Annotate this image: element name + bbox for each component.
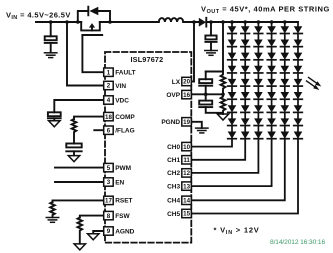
svg-text:1: 1	[107, 69, 111, 76]
svg-text:CH3: CH3	[167, 183, 180, 190]
inductor L1	[159, 18, 183, 22]
node string tap	[230, 20, 234, 24]
resistor RCOMP	[72, 119, 77, 144]
wire FET to inductor	[100, 21, 159, 23]
ground arrow AGND	[88, 234, 99, 240]
svg-text:13: 13	[183, 183, 190, 190]
LED string 1	[228, 22, 237, 139]
transistor Q1 pass FET	[81, 22, 102, 35]
wire string 2 to CH1	[191, 139, 245, 160]
svg-text:CH4: CH4	[167, 198, 180, 205]
wire string 4 to CH3	[191, 139, 271, 187]
pin 1 FAULT	[104, 68, 136, 77]
wire string 6 to CH5	[191, 139, 298, 214]
wire FSW pin 8	[80, 216, 104, 218]
svg-text:CH5: CH5	[167, 211, 180, 218]
svg-text:6: 6	[107, 127, 111, 134]
node string tap	[257, 20, 261, 24]
LED string 3	[254, 22, 263, 139]
wire EN input	[55, 181, 104, 183]
ground COUT	[205, 51, 217, 56]
node LX junction	[192, 20, 196, 24]
pin 5 PWM	[104, 163, 131, 172]
svg-text:10: 10	[183, 144, 190, 151]
wire /FLAG stub	[94, 129, 103, 131]
ground RSET	[46, 218, 58, 223]
IC box ISL97672 dashed outline	[105, 52, 191, 243]
pin 14 CH4	[167, 196, 191, 205]
LED string 4	[267, 22, 276, 139]
svg-text:3: 3	[107, 179, 111, 186]
node string tap	[243, 20, 247, 24]
LED string 2	[241, 22, 250, 139]
pin 12 CH2	[167, 169, 191, 178]
wire PGND pin 19	[191, 122, 202, 128]
node COUT tap	[209, 20, 213, 24]
ground arrow CCOMP	[68, 156, 79, 162]
svg-text:CH2: CH2	[167, 170, 180, 177]
ground CIN	[45, 53, 57, 58]
ground PGND	[196, 128, 208, 133]
svg-text:2: 2	[107, 83, 111, 90]
svg-text:FAULT: FAULT	[115, 70, 135, 77]
svg-text:15: 15	[183, 211, 190, 218]
svg-text:/FLAG: /FLAG	[115, 128, 135, 135]
pin 10 CH0	[167, 142, 191, 151]
resistor R1 OVP upper	[221, 72, 226, 95]
pin 18 COMP	[104, 112, 136, 121]
node OVP caps	[204, 93, 208, 97]
svg-text:VIN: VIN	[115, 83, 126, 90]
wire LX drop to pin 20	[191, 22, 194, 82]
svg-text:20: 20	[183, 79, 190, 86]
ground arrow RFSW	[74, 244, 85, 250]
node string tap	[270, 20, 274, 24]
pin 4 VDC	[104, 96, 130, 105]
wire VDC pin 4	[54, 100, 103, 112]
node OVP divider	[221, 93, 225, 97]
LED string 5	[281, 22, 290, 139]
pin 3 EN	[104, 178, 125, 187]
svg-text:OVP: OVP	[166, 92, 180, 99]
pin 8 FSW	[104, 211, 131, 220]
svg-text:RSET: RSET	[115, 198, 132, 205]
wire input rail	[36, 21, 81, 23]
svg-text:EN: EN	[115, 179, 124, 186]
wire VIN feed	[67, 22, 104, 86]
wire OVP pin 16	[191, 93, 223, 95]
ground arrow CVDC	[49, 121, 60, 127]
svg-text:CH1: CH1	[167, 157, 180, 164]
svg-text:14: 14	[183, 198, 190, 205]
wire PWM input	[55, 167, 104, 169]
pin 15 CH5	[167, 209, 191, 218]
svg-text:8: 8	[107, 213, 111, 220]
svg-text:19: 19	[183, 119, 190, 126]
svg-text:12: 12	[183, 170, 190, 177]
svg-text:PWM: PWM	[115, 165, 131, 172]
pin 9 AGND	[104, 227, 135, 236]
wire string 3 to CH2	[191, 139, 258, 173]
svg-text:11: 11	[183, 157, 190, 164]
wire OVP feed from VOUT	[206, 22, 223, 72]
pin 20 LX	[172, 77, 192, 86]
svg-text:FSW: FSW	[115, 213, 130, 220]
node VIN feed tap	[65, 20, 69, 24]
svg-text:AGND: AGND	[115, 228, 134, 235]
svg-text:LX: LX	[172, 79, 181, 86]
wire COMP pin 18	[74, 117, 104, 119]
capacitor COUT	[205, 22, 216, 50]
pin 6 /FLAG	[104, 126, 135, 135]
svg-text:17: 17	[105, 198, 112, 205]
wire Q1 gate to FAULT	[82, 35, 103, 72]
svg-text:CH0: CH0	[167, 144, 180, 151]
svg-text:16: 16	[183, 92, 190, 99]
svg-text:8/14/2012 16:30:16: 8/14/2012 16:30:16	[270, 239, 325, 246]
wire string 1 to CH0	[191, 139, 232, 147]
pin 16 OVP	[166, 90, 191, 99]
capacitor CIN	[45, 22, 57, 53]
svg-text:9: 9	[107, 228, 111, 235]
node OVP feed tap	[221, 20, 225, 24]
svg-text:VDC: VDC	[115, 97, 129, 104]
pin 17 RSET	[104, 196, 133, 205]
LED emission arrows	[307, 78, 322, 91]
svg-text:18: 18	[105, 114, 112, 121]
capacitor CVDC	[48, 112, 61, 120]
pin 13 CH3	[167, 182, 191, 191]
diode D1 bypass	[78, 7, 110, 22]
capacitor CCOMP	[66, 144, 81, 156]
wire AGND pin 9	[93, 231, 104, 234]
node input cap tap	[49, 20, 53, 24]
resistor R2 OVP lower	[221, 94, 226, 114]
svg-text:5: 5	[107, 165, 111, 172]
pin 19 PGND	[161, 118, 191, 127]
diode D2 boost rectifier	[199, 18, 207, 27]
svg-text:ISL97672: ISL97672	[131, 55, 164, 64]
wire inductor to diode	[183, 21, 199, 23]
svg-text:4: 4	[107, 97, 111, 104]
wire VOUT bus	[206, 21, 298, 23]
capacitor C1 OVP upper	[199, 72, 212, 95]
capacitor C2 OVP lower	[199, 94, 223, 113]
LED string 6	[294, 22, 303, 139]
svg-text:PGND: PGND	[161, 119, 180, 126]
wire RSET pin 17	[53, 200, 104, 202]
node drain/diode junction	[108, 20, 112, 24]
resistor RSET	[50, 202, 55, 217]
wire string 5 to CH4	[191, 139, 284, 201]
node string tap	[283, 20, 287, 24]
pin 11 CH1	[167, 156, 191, 165]
svg-text:COMP: COMP	[115, 114, 135, 121]
ground arrow OVP divider	[217, 114, 228, 120]
pin 2 VIN	[104, 81, 127, 90]
node diode loop left	[76, 20, 80, 24]
resistor RFSW	[78, 218, 83, 244]
